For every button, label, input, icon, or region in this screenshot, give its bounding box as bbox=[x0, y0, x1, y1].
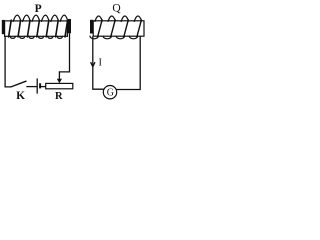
current arrow on Q left lead bbox=[91, 62, 95, 66]
rheostat R body bbox=[46, 83, 73, 88]
coil Q top arc turns bbox=[95, 16, 142, 21]
svg-text:I: I bbox=[99, 58, 103, 69]
battery short plate bbox=[39, 83, 41, 88]
coil P core rectangle bbox=[5, 21, 68, 36]
battery long plate bbox=[36, 78, 38, 93]
coil P right black cap bbox=[68, 19, 71, 33]
svg-text:Q: Q bbox=[112, 3, 121, 15]
coil Q left black cap bbox=[90, 20, 93, 34]
wire: P right lead down to slider bbox=[59, 33, 69, 80]
coil P bottom arc turns bbox=[10, 36, 63, 38]
svg-text:G: G bbox=[107, 88, 114, 99]
galvanometer G circle bbox=[103, 86, 116, 99]
coil Q core rectangle bbox=[93, 21, 144, 36]
coil P front winding strokes bbox=[9, 20, 68, 37]
wire: galvanometer to Q right lead bbox=[117, 36, 141, 89]
coil Q front winding strokes bbox=[98, 20, 142, 37]
wire: P left lead down bbox=[5, 36, 11, 87]
coil P top arc turns bbox=[13, 15, 68, 21]
svg-text:R: R bbox=[55, 91, 63, 102]
wire: Q left lead down bbox=[93, 36, 104, 89]
wire: battery to rheostat bbox=[41, 86, 46, 88]
svg-text:K: K bbox=[16, 90, 25, 102]
switch K blade bbox=[11, 81, 26, 87]
coil P left black cap bbox=[2, 20, 5, 34]
coil Q bottom arc turns bbox=[90, 36, 138, 39]
wire: switch contact to battery bbox=[26, 86, 36, 88]
rheostat slider arrowhead bbox=[57, 79, 62, 84]
svg-text:P: P bbox=[35, 3, 42, 15]
